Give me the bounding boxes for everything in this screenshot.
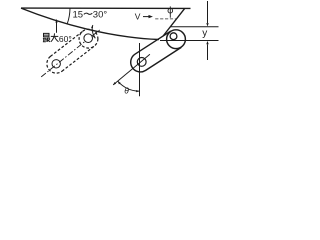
60 arc arrowhead top	[91, 25, 93, 28]
theta arc arrowhead right	[136, 90, 139, 92]
phantom head inner circle	[84, 34, 93, 43]
phantom center line dash-dot	[41, 30, 100, 77]
vertical reference line	[139, 43, 141, 96]
sensor mounting hole	[137, 58, 146, 67]
leader arrow for max 60	[56, 22, 58, 33]
svg-text:15: 15	[73, 10, 84, 21]
label phi symbol	[168, 6, 173, 17]
axis line arrowhead	[113, 82, 116, 85]
svg-text:30°: 30°	[93, 10, 108, 21]
phantom mounting hole	[52, 60, 60, 68]
svg-text:θ: θ	[124, 86, 129, 96]
sheet bottom curved line	[21, 8, 159, 39]
sensor head outer circle	[167, 30, 186, 49]
dimension lower line y (optical axis)	[160, 40, 219, 42]
sheet right cut edge	[163, 8, 185, 36]
angle arc 15-30	[67, 8, 70, 24]
kanji DAI (big)	[51, 33, 59, 41]
svg-text:V: V	[135, 12, 141, 22]
sensor axis reference line	[113, 54, 150, 85]
angle arc theta	[118, 81, 140, 91]
sensor head inner circle	[170, 33, 177, 40]
dimension vertical line bottom with arrow	[207, 44, 209, 60]
dimension vertical line top with arrow	[207, 1, 209, 23]
svg-text:y: y	[202, 28, 207, 39]
sheet top edge line	[21, 7, 191, 9]
phi angle arc dashed	[155, 18, 176, 20]
tilde wave	[84, 13, 93, 14]
dimension upper line y	[170, 26, 218, 28]
svg-text:60°: 60°	[59, 34, 72, 44]
phantom sensor body obround dashed	[47, 31, 94, 73]
angle arc 60	[92, 25, 95, 38]
theta arc arrowhead left	[118, 81, 121, 84]
arrow V direction	[143, 16, 149, 18]
60 arc arrowhead bottom	[93, 35, 96, 38]
kanji SAI (most)	[43, 33, 50, 42]
sensor body obround solid	[131, 31, 182, 72]
phantom head outer circle dashed	[79, 29, 98, 48]
